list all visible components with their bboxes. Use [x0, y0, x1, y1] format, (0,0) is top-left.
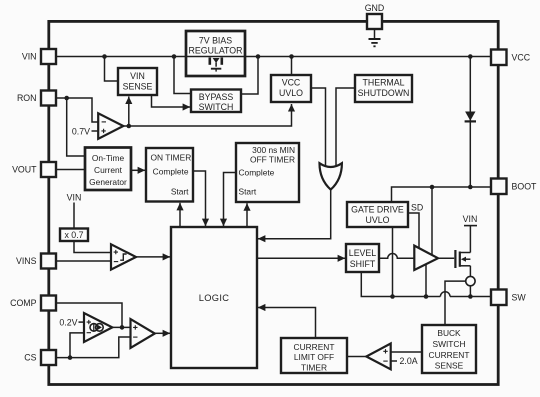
wire current limit comparator output to CURRENT LIMIT OFF TIMER	[348, 356, 367, 358]
wire MOSFET source to sense element	[469, 266, 471, 277]
node rail junction C	[256, 54, 261, 59]
svg-text:Generator: Generator	[89, 177, 127, 187]
block VIN SENSE	[118, 68, 157, 95]
pin SW	[491, 290, 526, 306]
svg-text:SHIFT: SHIFT	[350, 259, 376, 269]
svg-text:300 ns MIN: 300 ns MIN	[252, 145, 295, 155]
node VIN net label	[67, 192, 82, 202]
svg-text:SW: SW	[512, 292, 527, 302]
IC outer border	[49, 21, 498, 384]
wire VIN SENSE output to BYPASS SWITCH arrow	[152, 95, 191, 107]
pin RON	[17, 91, 56, 106]
wire RON junction down to On-Time Current Generator	[67, 98, 85, 156]
svg-text:On-Time: On-Time	[92, 153, 125, 163]
svg-text:Complete: Complete	[239, 168, 275, 178]
wire RON pin to comparator minus input	[56, 98, 98, 122]
svg-text:2.0A: 2.0A	[400, 356, 418, 366]
wire VINS pin to comparator minus	[56, 260, 111, 262]
wire LOGIC to LEVEL SHIFT	[257, 257, 345, 259]
pin COMP	[10, 296, 56, 311]
svg-text:VIN: VIN	[130, 71, 145, 81]
block On-Time Current Generator	[85, 148, 131, 191]
wire LOGIC to ON TIMER start	[179, 203, 181, 227]
wire THERMAL SHUTDOWN output to OR gate	[336, 88, 355, 168]
wire LEVEL SHIFT output to driver with crossover hop	[379, 254, 414, 259]
wire LOGIC to 300ns start	[246, 203, 248, 227]
svg-text:Current: Current	[94, 165, 123, 175]
pin BOOT	[491, 179, 537, 195]
node BOOT junction to diode	[468, 185, 473, 190]
svg-text:RON: RON	[17, 93, 37, 103]
svg-text:SENSE: SENSE	[435, 361, 464, 371]
wire On-Time generator output to ON TIMER	[131, 169, 145, 171]
svg-text:TIMER: TIMER	[301, 363, 327, 373]
node BOOT junction to driver	[430, 185, 435, 190]
wire ON TIMER complete to LOGIC	[193, 171, 206, 226]
svg-text:SD: SD	[411, 203, 423, 213]
svg-text:BYPASS: BYPASS	[199, 92, 234, 102]
wire VIN rail to VCC	[56, 56, 491, 58]
wire COMP pin down to error amp output node	[56, 303, 122, 326]
svg-text:0.7V: 0.7V	[72, 126, 90, 136]
block GATE DRIVE UVLO	[347, 202, 408, 227]
amplifier U7 gate driver	[414, 246, 438, 270]
wire BUCK sense output to current limit comparator	[391, 351, 422, 353]
svg-text:SHUTDOWN: SHUTDOWN	[358, 88, 410, 98]
svg-text:VCC: VCC	[282, 78, 301, 88]
wire BYPASS SWITCH output up to rail	[241, 57, 258, 95]
wire 300ns complete to LOGIC	[224, 173, 237, 227]
block THERMAL SHUTDOWN	[355, 75, 412, 102]
wire VIN label to x0.7 block	[73, 203, 75, 229]
wire rail to VIN SENSE input	[105, 57, 118, 82]
node VIN supply to buck switch drain	[463, 214, 478, 253]
block BUCK SWITCH CURRENT SENSE	[422, 325, 476, 373]
wire VOUT pin to On-Time Current Generator	[56, 169, 85, 171]
svg-text:BOOT: BOOT	[512, 181, 538, 191]
gate U6 OR shutdown	[320, 163, 342, 189]
svg-text:BUCK: BUCK	[437, 328, 461, 338]
pin VINS	[16, 254, 56, 269]
svg-text:OFF TIMER: OFF TIMER	[250, 155, 295, 165]
node CS junction	[68, 355, 73, 360]
svg-text:CURRENT: CURRENT	[294, 342, 335, 352]
wire VCC UVLO output to OR gate	[311, 88, 326, 168]
block x 0.7	[60, 229, 88, 242]
block BYPASS SWITCH	[191, 90, 241, 113]
transistor Q1 buck switch	[455, 250, 470, 268]
wire VCC rail to BOOT via diode	[469, 57, 471, 188]
comparator U2 0.7V RON sense	[98, 113, 123, 139]
node RON junction	[64, 96, 69, 101]
comparator U3 VINS with hysteresis	[111, 244, 136, 269]
node SD net label	[411, 203, 423, 213]
svg-text:0.2V: 0.2V	[59, 317, 77, 327]
value 2.0A with stub	[391, 356, 418, 366]
wire GATE DRIVE UVLO SD output to driver	[408, 213, 419, 248]
value 0.7V with stub	[72, 126, 98, 136]
wire sense element to SW rail	[469, 286, 471, 297]
svg-text:VINS: VINS	[16, 256, 37, 266]
wire rail segment inside regulator	[187, 56, 244, 58]
wire x0.7 output to VINS comparator plus	[74, 241, 111, 253]
svg-text:UVLO: UVLO	[279, 88, 303, 98]
wire BOOT net	[392, 187, 492, 202]
svg-text:VCC: VCC	[512, 52, 531, 62]
value 0.2V with stub	[59, 317, 83, 327]
svg-text:VIN: VIN	[463, 214, 478, 224]
pin CS	[24, 350, 56, 365]
wire CURRENT LIMIT OFF TIMER output to LOGIC	[258, 308, 316, 339]
svg-text:SWITCH: SWITCH	[432, 339, 465, 349]
svg-text:CURRENT: CURRENT	[429, 350, 470, 360]
svg-text:GATE DRIVE: GATE DRIVE	[351, 205, 404, 215]
wire error amp minus to CS junction	[70, 333, 84, 357]
block LEVEL SHIFT	[346, 244, 379, 272]
wire error amp output to PWM comparator plus	[112, 326, 130, 328]
wire driver bottom to SW rail	[425, 264, 427, 296]
block 300 ns MIN OFF TIMER	[236, 143, 299, 202]
wire CS pin to PWM comparator minus	[56, 337, 130, 358]
svg-text:ON TIMER: ON TIMER	[151, 153, 192, 163]
amplifier U4 error amp 0.2V	[84, 313, 112, 342]
block VCC UVLO	[271, 75, 311, 102]
svg-text:Start: Start	[239, 187, 257, 197]
pin VOUT	[12, 162, 56, 177]
svg-text:SENSE: SENSE	[123, 82, 153, 92]
node comparator output junction	[127, 124, 132, 129]
wire driver output to MOSFET gate	[438, 257, 454, 259]
comparator U5 PWM	[131, 319, 155, 348]
regulator U1 7V BIAS REGULATOR	[186, 31, 245, 76]
svg-text:COMP: COMP	[10, 298, 37, 308]
diode D1 boot	[465, 112, 476, 122]
svg-text:THERMAL: THERMAL	[362, 78, 404, 88]
wire comparator output junction up to VIN SENSE bottom	[128, 97, 130, 127]
svg-text:VIN: VIN	[67, 192, 82, 202]
pin GND	[365, 3, 385, 29]
svg-text:REGULATOR: REGULATOR	[189, 45, 243, 55]
node rail junction A	[102, 54, 107, 59]
node rail junction E	[468, 54, 473, 59]
node COMP junction	[120, 325, 125, 330]
svg-text:GND: GND	[365, 3, 385, 13]
svg-text:LIMIT OFF: LIMIT OFF	[294, 352, 334, 362]
wire OR gate output to LOGIC	[258, 190, 331, 239]
node rail junction D	[289, 54, 294, 59]
wire BOOT junction down to driver top	[431, 187, 433, 255]
svg-text:CS: CS	[24, 353, 36, 363]
pin VIN	[22, 49, 56, 64]
svg-text:SWITCH: SWITCH	[199, 102, 234, 112]
sensor current sense element	[466, 276, 475, 285]
wire PWM comparator output to LOGIC	[155, 332, 170, 334]
block CURRENT LIMIT OFF TIMER	[281, 338, 347, 373]
svg-text:VOUT: VOUT	[12, 165, 37, 175]
svg-text:Start: Start	[171, 187, 189, 197]
node rail junction B	[172, 54, 177, 59]
block ON TIMER	[146, 148, 193, 202]
svg-text:LOGIC: LOGIC	[199, 293, 229, 303]
wire 0.7V comparator output to VCC UVLO bottom	[123, 104, 291, 126]
svg-text:7V BIAS: 7V BIAS	[199, 36, 232, 46]
comparator U8 current limit 2.0A	[366, 344, 390, 370]
node SW rail junction driver	[424, 294, 429, 299]
wire SW rail with crossover hop	[361, 272, 491, 297]
transistor pass element inside regulator	[210, 58, 222, 72]
svg-text:UVLO: UVLO	[366, 215, 390, 225]
node SW rail junction sense	[468, 294, 473, 299]
pin VCC	[491, 50, 531, 66]
block LOGIC	[171, 227, 257, 368]
wire rail down to VCC UVLO top	[291, 57, 293, 75]
wire sense tap to BUCK SWITCH CURRENT SENSE	[445, 281, 466, 324]
svg-text:VIN: VIN	[22, 52, 37, 62]
node SW rail junction gate drive	[390, 294, 395, 299]
wire VINS comparator output to LOGIC	[136, 256, 170, 258]
ground	[369, 29, 381, 46]
svg-text:Complete: Complete	[153, 167, 189, 177]
wire rail to BYPASS SWITCH upper input	[174, 57, 190, 94]
svg-text:LEVEL: LEVEL	[349, 248, 376, 258]
svg-text:x 0.7: x 0.7	[64, 230, 83, 240]
wire GATE DRIVE UVLO bottom to SW rail	[392, 227, 394, 297]
